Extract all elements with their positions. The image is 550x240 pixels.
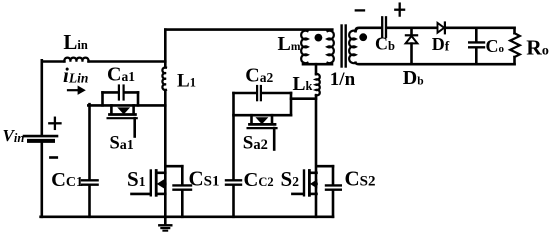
svg-text:Co: Co [486,36,505,56]
svg-text:Vin: Vin [3,126,25,145]
svg-text:Sa2: Sa2 [243,133,268,154]
svg-text:Ca1: Ca1 [107,63,135,85]
svg-text:CS2: CS2 [345,167,376,191]
svg-text:Lk: Lk [293,74,313,95]
svg-text:CC2: CC2 [244,169,274,191]
svg-text:iLin: iLin [63,63,88,87]
svg-text:CS1: CS1 [189,166,220,190]
svg-text:S2: S2 [281,167,300,191]
svg-text:Lin: Lin [63,30,87,54]
svg-text:L1: L1 [177,70,196,91]
svg-text:Ro: Ro [526,35,549,59]
svg-text:CC1: CC1 [51,169,83,191]
svg-text:S1: S1 [127,167,146,191]
svg-text:Lm: Lm [278,33,301,55]
svg-text:Sa1: Sa1 [110,133,134,153]
svg-text:1/n: 1/n [330,69,356,90]
svg-text:Df: Df [432,34,450,54]
svg-text:Ca2: Ca2 [245,64,273,86]
svg-text:Db: Db [403,67,424,89]
svg-text:Cb: Cb [375,33,395,53]
